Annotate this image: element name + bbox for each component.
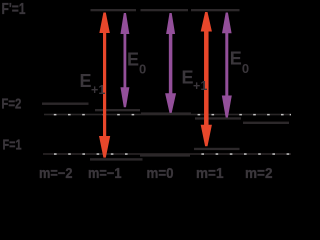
svg-text:m=−1: m=−1 [88,166,122,182]
arrow E0 purple double-headed (m=0 column) [165,13,176,113]
svg-text:F=2: F=2 [1,96,21,112]
svg-text:m=0: m=0 [147,166,174,182]
level F=2 m=-1 bar [95,109,140,111]
F=2 dashed line (dark dashes) [44,114,291,116]
level F=1 m=0 bar [140,154,190,156]
level F'=1 m'=-1 bar [91,9,137,11]
arrow E+1 red double-headed (m=+1 column) [201,12,212,146]
F=2 dashed line white ticks [54,114,291,116]
level F'=1 m'=+1 bar [191,9,240,11]
svg-text:m=2: m=2 [245,166,273,182]
level F=2 m=0 bar [141,112,191,114]
level F=1 m=+1 bar [194,148,240,150]
arrow E0 purple double-headed (m=-1 column) [120,13,129,107]
level F'=1 m'=0 bar [141,9,189,11]
svg-text:m=−2: m=−2 [39,166,73,182]
level F=1 m=-1 bar [90,158,143,160]
svg-text:F=1: F=1 [3,137,22,153]
F=1 dashed line (dark dashes) [43,153,291,155]
arrow E+1 red double-headed (m=-1 column) [99,13,110,158]
F=1 dashed line white ticks [54,153,289,155]
level F=2 m=-2 bar [42,103,89,105]
level F=2 m=+2 bar [243,122,289,124]
svg-text:F'=1: F'=1 [2,1,26,18]
svg-text:m=1: m=1 [196,166,224,182]
arrow E0 purple double-headed (m=+1 column) [222,13,232,118]
level F=2 m=+1 bar [195,117,241,119]
